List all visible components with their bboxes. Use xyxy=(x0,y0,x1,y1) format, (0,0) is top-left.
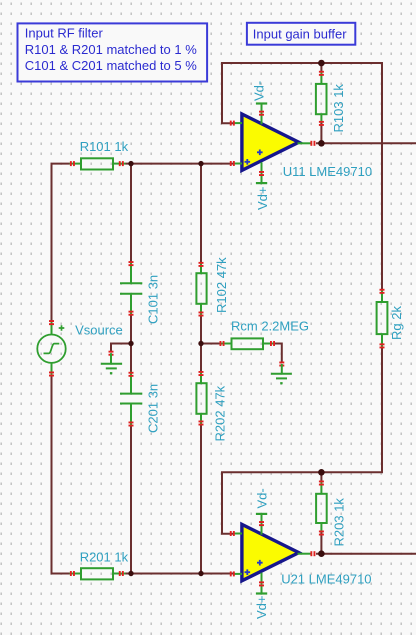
svg-text:U11 LME49710: U11 LME49710 xyxy=(283,164,372,179)
resistor R202 xyxy=(196,371,227,442)
svg-text:Vd-: Vd- xyxy=(252,81,267,101)
resistor R101 xyxy=(70,139,129,169)
power pins Vd- / Vd+ of U11 xyxy=(252,81,271,210)
resistor R203 xyxy=(316,472,346,553)
wire xyxy=(316,553,416,555)
node junction dots xyxy=(128,60,324,577)
svg-text:R101 & R201 matched to 1 %: R101 & R201 matched to 1 % xyxy=(25,42,197,57)
wire xyxy=(130,164,132,262)
capacitor C101 xyxy=(120,261,160,324)
wire xyxy=(200,426,202,574)
svg-text:R203 1k: R203 1k xyxy=(331,498,346,547)
svg-text:U21 LME49710: U21 LME49710 xyxy=(281,571,371,586)
svg-text:Input RF filter: Input RF filter xyxy=(25,26,104,41)
svg-text:R103 1k: R103 1k xyxy=(331,84,346,133)
svg-text:Input gain buffer: Input gain buffer xyxy=(253,26,347,41)
wire xyxy=(200,164,202,262)
voltage source Vsource xyxy=(37,320,123,376)
svg-text:Rcm 2.2MEG: Rcm 2.2MEG xyxy=(231,319,309,334)
svg-text:C101 3n: C101 3n xyxy=(145,275,160,324)
svg-text:Vsource: Vsource xyxy=(75,323,123,338)
wire xyxy=(111,344,131,353)
wire xyxy=(130,426,132,574)
label U21 xyxy=(281,571,371,586)
wire xyxy=(222,63,382,290)
resistor R103 xyxy=(316,63,346,143)
svg-text:C101 & C201 matched to 5 %: C101 & C201 matched to 5 % xyxy=(25,58,197,73)
resistor Rcm xyxy=(220,319,310,350)
annotation box: Input RF filter notes xyxy=(18,23,208,81)
ground xyxy=(101,351,122,374)
resistor R102 xyxy=(196,257,229,317)
annotation box: Input gain buffer xyxy=(247,23,355,45)
wire xyxy=(222,347,382,534)
wire xyxy=(201,343,220,345)
svg-text:Rg 2k: Rg 2k xyxy=(389,306,404,340)
svg-text:R202 47k: R202 47k xyxy=(213,385,228,441)
power pins Vd- / Vd+ of U21 xyxy=(254,488,269,619)
label U11 xyxy=(283,164,372,179)
svg-text:R102 47k: R102 47k xyxy=(214,257,229,313)
svg-text:Vd+: Vd+ xyxy=(255,187,270,211)
resistor Rg xyxy=(377,289,404,349)
wire xyxy=(52,164,70,321)
svg-text:R201 1k: R201 1k xyxy=(80,550,129,565)
wire xyxy=(52,376,70,573)
resistor R201 xyxy=(70,550,129,580)
capacitor C201 xyxy=(120,372,160,434)
ground xyxy=(271,362,292,384)
wire xyxy=(275,344,282,363)
wire xyxy=(130,315,132,372)
op-amp U21 xyxy=(230,524,316,580)
svg-text:Vd+: Vd+ xyxy=(254,596,269,620)
svg-text:R101 1k: R101 1k xyxy=(80,139,129,154)
op-amp U11 xyxy=(230,114,316,170)
wire xyxy=(126,573,235,575)
wire xyxy=(200,316,202,372)
svg-text:Vd-: Vd- xyxy=(254,488,269,508)
wire xyxy=(126,163,235,165)
svg-text:C201 3n: C201 3n xyxy=(145,384,160,433)
wire xyxy=(316,142,416,144)
